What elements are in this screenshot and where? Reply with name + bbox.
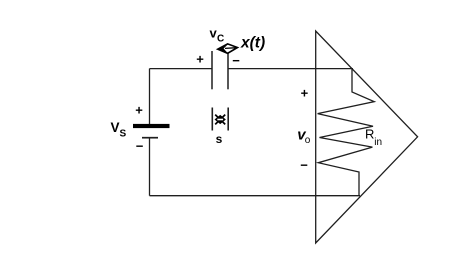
svg-text:−: − (232, 53, 240, 68)
battery VS positive plate (133, 124, 170, 128)
voltage arrow diamond (218, 44, 238, 53)
battery VS negative plate (142, 137, 158, 139)
capacitor C left plate (211, 51, 213, 89)
svg-text:C: C (217, 34, 224, 45)
svg-text:V: V (111, 120, 120, 135)
svg-text:+: + (135, 103, 143, 118)
svg-text:S: S (120, 129, 127, 140)
resistor Rin zigzag (318, 69, 375, 196)
svg-text:−: − (300, 158, 308, 173)
svg-text:R: R (365, 126, 374, 141)
svg-text:o: o (305, 135, 311, 146)
svg-text:−: − (136, 139, 144, 154)
wire left vertical lower (149, 138, 151, 196)
switch S bowtie symbol (215, 115, 226, 125)
wire bottom (150, 195, 361, 197)
switch S left bar (211, 108, 213, 131)
svg-text:s: s (216, 132, 223, 146)
op-amp style triangle (316, 31, 418, 243)
wire top right segment (228, 68, 353, 70)
svg-text:+: + (301, 86, 309, 101)
wire left vertical upper (149, 69, 151, 125)
wire top left segment (150, 68, 213, 70)
svg-text:x(t): x(t) (240, 35, 265, 52)
svg-text:+: + (196, 52, 204, 67)
switch S right bar (227, 108, 229, 131)
capacitor C right plate (227, 53, 229, 90)
svg-text:in: in (374, 137, 382, 148)
